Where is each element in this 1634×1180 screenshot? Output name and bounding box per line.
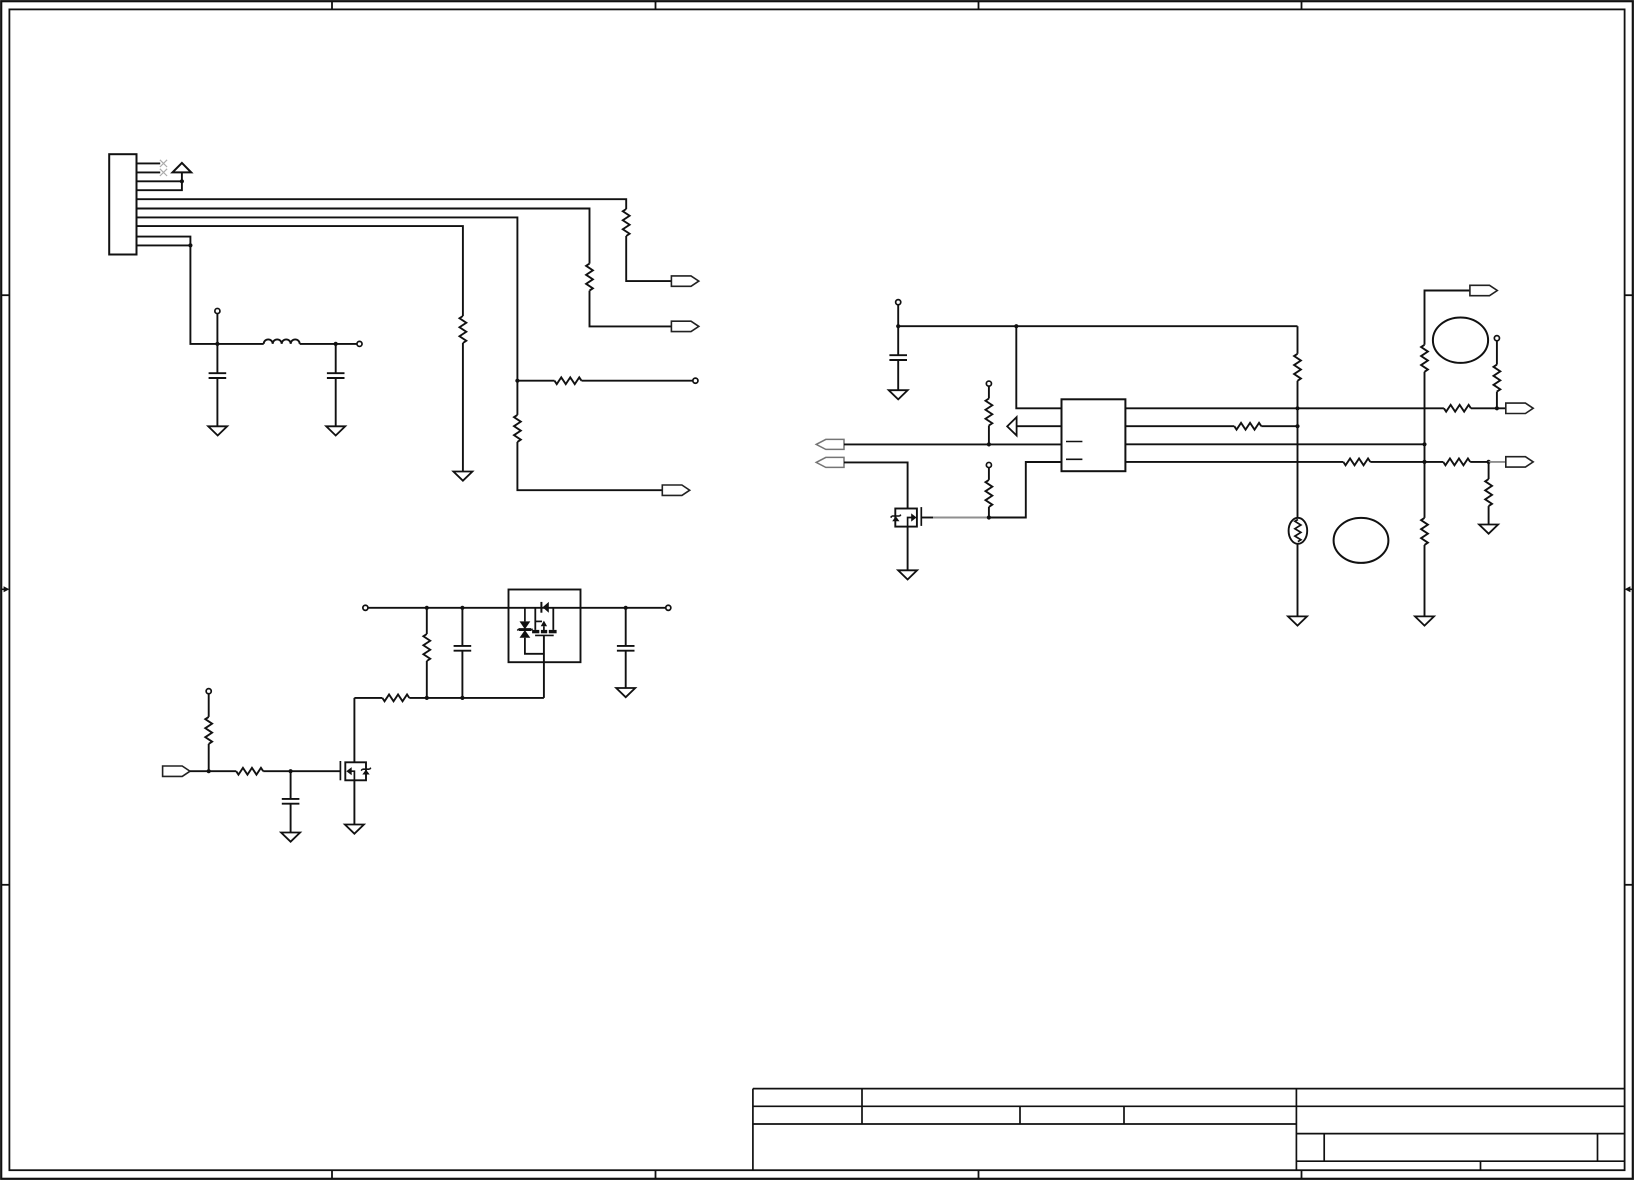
capacitor C5 — [454, 646, 472, 651]
wire R3 to port C — [517, 442, 662, 490]
wire R20 to F2 — [1470, 461, 1488, 463]
zone tick right 2 — [1625, 884, 1633, 886]
wire N1 to R16 — [517, 380, 554, 382]
resistor R14 — [236, 768, 263, 775]
wire R1 to port A — [626, 236, 671, 281]
resistor R11 — [1494, 365, 1501, 392]
wire J1 pin7 — [137, 217, 518, 380]
annotation circle E1 — [1334, 518, 1389, 563]
wire R15 to U2 source — [409, 697, 544, 699]
Q1 internal source path — [908, 518, 914, 527]
zone tick top 1 — [331, 1, 333, 9]
power flag VCC — [173, 163, 192, 181]
junction filter node B — [334, 342, 338, 346]
wire C5 to M2 — [461, 651, 463, 698]
wire J1 pin9 — [137, 237, 191, 246]
open terminal circle TP2 — [215, 308, 220, 313]
wire J1 pin5 — [137, 199, 627, 209]
resistor R20 — [1443, 459, 1470, 466]
wire TP8 to R12 — [208, 694, 210, 717]
ground GND6 — [1288, 616, 1307, 625]
right edge centre arrow — [1625, 586, 1633, 592]
wire Q2 source to ground — [353, 780, 355, 824]
wire top rail corner to R7 — [1297, 326, 1299, 354]
capacitor C2 — [327, 373, 345, 378]
wire U1 pin6 row3 — [1125, 443, 1424, 445]
wire node A to L1 — [217, 343, 263, 345]
resistor R4 — [460, 316, 467, 343]
input port D (left flag) — [816, 439, 844, 449]
title block frame — [753, 1089, 1625, 1171]
zone tick top 3 — [978, 1, 980, 9]
zone tick bottom 1 — [331, 1170, 333, 1179]
capacitor C3 — [889, 355, 907, 360]
wire C4 to ground — [290, 804, 292, 833]
wire U1 pin8 row1 — [1125, 407, 1444, 409]
wire Q1 source to ground — [907, 527, 909, 571]
open terminal circle TP1 — [693, 378, 698, 383]
wire R18 to vert1297 — [1261, 425, 1297, 427]
wire R5 to node G1 — [988, 426, 990, 445]
wire input rail — [368, 607, 666, 609]
zone tick left 1 — [1, 294, 9, 296]
wire D1 to source L — [525, 638, 544, 654]
capacitor C1 — [209, 373, 227, 378]
junction pin9/pin10 — [188, 243, 192, 247]
resistor R2 — [586, 264, 593, 291]
left edge centre arrow — [1, 586, 9, 592]
junction node K2 — [289, 769, 293, 773]
wire C3 to ground — [897, 360, 899, 390]
output port A — [671, 276, 698, 286]
load switch U2 box — [509, 590, 581, 663]
wire J1 pin3 — [137, 180, 182, 182]
capacitor C6 — [617, 646, 635, 651]
wire drain node to R15 — [354, 697, 382, 699]
resistor R3 — [514, 415, 521, 442]
wire M3 to R13 — [426, 608, 428, 634]
junction node G2 — [987, 515, 991, 519]
transistor Q1 box — [895, 509, 917, 527]
wire vert1424 top to port H — [1425, 291, 1470, 345]
wire R13 to M1 — [426, 661, 428, 698]
wire TP4 stub — [897, 305, 899, 326]
wire node A to C1 — [216, 344, 218, 373]
open terminal circle TP4 — [896, 300, 901, 305]
wire R17 to port F — [1471, 407, 1506, 409]
output port F — [1506, 403, 1533, 413]
wire L1 to node B — [300, 343, 336, 345]
junction node F2 — [1487, 460, 1491, 464]
wire R14 to Q2 gate — [263, 770, 340, 772]
resistor R16 — [555, 377, 582, 384]
zone tick top 2 — [655, 1, 657, 9]
zone tick left 2 — [1, 884, 9, 886]
zone tick bottom 3 — [978, 1170, 980, 1179]
wire G2 to U1 pin4 — [989, 462, 1062, 518]
wire F2 to port G (grey) — [1489, 461, 1506, 463]
wire Q1 gate stub — [921, 517, 933, 519]
junction node K1 — [207, 769, 211, 773]
junction node M1 — [425, 696, 429, 700]
wire R10 to ground — [1488, 506, 1490, 524]
no-connect X pin1 — [160, 160, 167, 167]
no-connect X pin2 — [160, 169, 167, 176]
wire RT1 to ground — [1297, 544, 1299, 617]
capacitor C4 — [282, 799, 300, 804]
Q1 internal arrow — [911, 513, 916, 521]
wire N1 down — [516, 381, 518, 415]
ground GND5 — [898, 570, 917, 579]
pass FET U2A drain stub left — [534, 608, 536, 630]
ground GND9 — [281, 833, 300, 842]
junction rail node M5 — [624, 606, 628, 610]
wire J1 pin2 — [137, 171, 161, 173]
wire V1 to C3 — [897, 326, 899, 355]
TVS diode D1 — [517, 608, 532, 638]
wire M4 to C5 — [461, 608, 463, 646]
wire node B to TP3 — [336, 343, 357, 345]
junction row2/vert1297 — [1295, 424, 1299, 428]
wire TP2 stub — [216, 314, 218, 344]
junction rail node M4 — [460, 606, 464, 610]
ground GND1 — [453, 472, 472, 481]
pass FET U2A channel dashes — [532, 630, 557, 633]
junction node V1b — [1014, 324, 1018, 328]
input arrow port P1 — [1007, 417, 1016, 435]
wire J1 pin8 — [137, 226, 463, 316]
wire J1 pin10 — [137, 244, 191, 246]
pass FET U2A bulk line and arrow — [535, 621, 547, 631]
output port B — [671, 321, 698, 331]
resistor R18 — [1234, 423, 1261, 430]
wire R4 to ground — [462, 343, 464, 472]
wire V1b to U1 pin1 — [1016, 326, 1061, 408]
zone tick top 4 — [1301, 1, 1303, 9]
wire R6 to node G2 — [988, 507, 990, 518]
resistor R7 — [1294, 354, 1301, 381]
resistor R6 — [986, 480, 993, 507]
junction node F1 — [1495, 406, 1499, 410]
transistor Q2 box — [345, 762, 366, 780]
resistor R10 — [1485, 479, 1492, 506]
junction node V1 — [896, 324, 900, 328]
output port G — [1506, 457, 1533, 467]
ground GND11 — [616, 688, 635, 697]
wire R12 to node K1 — [208, 744, 210, 771]
IC U1 — [1062, 399, 1126, 471]
ground GND7 — [1415, 616, 1434, 625]
wire U2 source down — [543, 635, 545, 698]
zone tick right 1 — [1625, 294, 1633, 296]
open terminal circle TP10 — [666, 605, 671, 610]
resistor R1 — [623, 209, 630, 236]
wire C6 to ground — [625, 651, 627, 688]
pass FET U2A drain stub right — [552, 608, 554, 630]
resistor R19 — [1343, 459, 1370, 466]
U1 inner dash 1 — [1066, 441, 1082, 443]
thermistor RT1 — [1289, 518, 1308, 544]
wire R16 to test point — [582, 380, 693, 382]
transistor Q2 gate bar — [339, 761, 341, 780]
resistor R8 — [1421, 345, 1428, 372]
junction node N1 — [515, 379, 519, 383]
ground GND10 — [345, 825, 364, 834]
wire port D to U1 pin3 — [844, 443, 1062, 445]
wire R19 onward — [1370, 461, 1443, 463]
open terminal circle TP7 — [1494, 336, 1499, 341]
annotation circle E2 — [1433, 318, 1488, 363]
wire M5 to C6 — [625, 608, 627, 646]
wire P1 to U1 pin2 — [1017, 425, 1062, 427]
ground GND3 — [326, 426, 345, 435]
resistor R17 — [1444, 405, 1471, 412]
inductor L1 — [264, 339, 300, 344]
open terminal circle TP6 — [986, 462, 991, 467]
wire TP5 to R5 — [988, 386, 990, 398]
connector J1 — [109, 154, 136, 254]
open terminal circle TP5 — [986, 381, 991, 386]
open terminal circle TP8 — [206, 689, 211, 694]
wire Q2 drain up — [353, 698, 355, 762]
Q1 body zener on left edge — [891, 515, 901, 522]
resistor R5 — [986, 399, 993, 426]
Q2 internal arrow — [346, 767, 351, 775]
zone tick bottom 4 — [1301, 1170, 1303, 1179]
wire TP6 to R6 — [988, 468, 990, 480]
junction row3/vert1424 — [1422, 442, 1426, 446]
wire U1 pin7 row2 — [1125, 425, 1234, 427]
input port K (bottom left) — [163, 766, 190, 776]
junction filter node A — [215, 342, 219, 346]
pass FET U2A gate line — [535, 634, 554, 636]
wire J1 pin6 — [137, 209, 590, 264]
wire F1 up to R11 — [1496, 392, 1498, 409]
wire port E to Q1 drain — [844, 462, 908, 508]
ground GND4 — [889, 390, 908, 399]
Q2 body zener on right edge — [361, 768, 371, 775]
wire R7 down vert1297 — [1297, 381, 1299, 518]
wire port K to R14 — [190, 770, 236, 772]
wire C2 to ground — [335, 378, 337, 426]
wire F2 down to R10 — [1488, 462, 1490, 479]
output port H — [1470, 285, 1497, 295]
wire R8 down vert1424 — [1424, 372, 1426, 518]
zone tick bottom 2 — [655, 1170, 657, 1179]
wire R9 to ground — [1424, 545, 1426, 617]
wire node B to C2 — [335, 344, 337, 373]
input port E (left flag, grey) — [816, 457, 844, 467]
wire pin10 to filter — [190, 245, 217, 344]
wire K2 to C4 — [290, 771, 292, 799]
wire R2 to port B — [590, 291, 672, 327]
Q2 internal source path — [350, 771, 354, 780]
ground GND8 — [1479, 525, 1498, 534]
resistor R12 — [205, 717, 212, 744]
wire R11 to TP7 — [1496, 341, 1498, 365]
junction row4/vert1424 — [1422, 460, 1426, 464]
open terminal circle TP3 — [357, 341, 362, 346]
wire U1 pin5 row4 — [1125, 461, 1343, 463]
wire J1 pin4 — [137, 181, 182, 190]
junction node G1 — [987, 442, 991, 446]
junction pin3/pin4 — [180, 179, 184, 183]
resistor R9 — [1421, 518, 1428, 545]
junction node M2 — [460, 696, 464, 700]
ground GND2 — [208, 426, 227, 435]
Q1 gate bar — [920, 507, 922, 526]
wire J1 pin1 — [137, 162, 161, 164]
junction rail node M3 — [425, 606, 429, 610]
wire C1 to ground — [216, 378, 218, 426]
resistor R15 — [382, 695, 409, 702]
output port C — [662, 485, 689, 495]
resistor R13 — [423, 634, 430, 661]
U1 inner dash 2 — [1066, 458, 1082, 460]
junction row1/vert1297 — [1295, 406, 1299, 410]
wire top rail V1 — [898, 325, 1297, 327]
wire Q1 gate grey segment — [933, 517, 989, 519]
pass FET U2A body diode — [541, 602, 548, 613]
open terminal circle TP9 — [363, 605, 368, 610]
